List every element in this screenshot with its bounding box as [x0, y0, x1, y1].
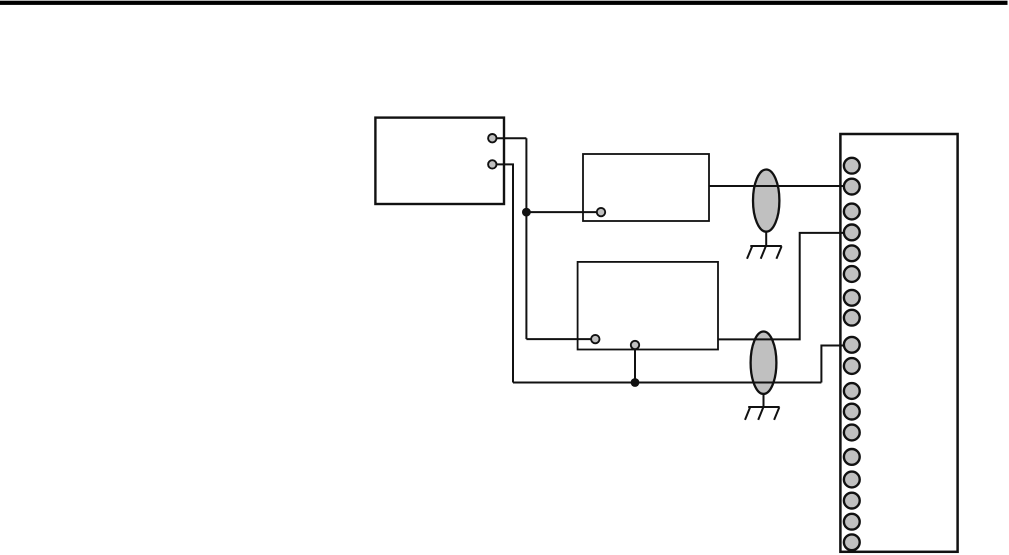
- connector pin 17: [844, 514, 860, 530]
- connector pin 10: [844, 358, 860, 374]
- wire: source pin2 down-run: [492, 164, 513, 382]
- wire: U3 bottom pin stub: [634, 345, 636, 383]
- connector pin 16: [844, 493, 860, 509]
- connector pin 8: [844, 310, 860, 326]
- wire: bus to U2 input: [526, 211, 601, 213]
- connector pin 1: [844, 158, 860, 174]
- wire: lower horizontal return run: [513, 382, 821, 384]
- shield ellipse E1: [753, 170, 779, 232]
- wire: vertical bus from pin1 down: [525, 138, 527, 339]
- shield ellipse E2: [751, 332, 777, 394]
- connector pin 13: [844, 425, 860, 441]
- connector block J1: [840, 134, 957, 552]
- source pin circle 1: [488, 134, 496, 142]
- connector pin 14: [844, 449, 860, 465]
- U3 bottom pin circle: [631, 341, 639, 349]
- module box U3: [578, 262, 718, 350]
- node junction at bus/U2 tap: [522, 208, 531, 217]
- connector pin 3: [844, 204, 860, 220]
- wire: U2 output through shield E1 to connector pin 2: [709, 185, 847, 187]
- connector pin 18: [844, 534, 860, 550]
- source device box: [375, 118, 504, 204]
- node junction on return run: [631, 378, 640, 387]
- connector pin 2: [844, 179, 860, 195]
- source pin circle 2: [488, 160, 496, 168]
- U2 input pin circle: [597, 208, 605, 216]
- wire: source pin1 to vertical bus: [492, 137, 526, 139]
- U3 input pin circle: [591, 335, 599, 343]
- connector pin 15: [844, 472, 860, 488]
- connector pin 5: [844, 245, 860, 261]
- wire: return run up to connector pin 9: [821, 346, 847, 383]
- connector pin 7: [844, 290, 860, 306]
- connector pin 9: [844, 337, 860, 353]
- wire: bus to U3 input: [526, 338, 595, 340]
- chassis ground below E2: [745, 394, 780, 420]
- chassis ground below E1: [747, 232, 782, 259]
- module box U2: [583, 154, 709, 221]
- wire: U3 output through shield E2 up to connector pin 4: [718, 233, 847, 340]
- connector pin 6: [844, 266, 860, 282]
- connector pin 11: [844, 383, 860, 399]
- connector pin 12: [844, 404, 860, 420]
- connector pin 4: [844, 225, 860, 241]
- top header bar: [0, 1, 1008, 5]
